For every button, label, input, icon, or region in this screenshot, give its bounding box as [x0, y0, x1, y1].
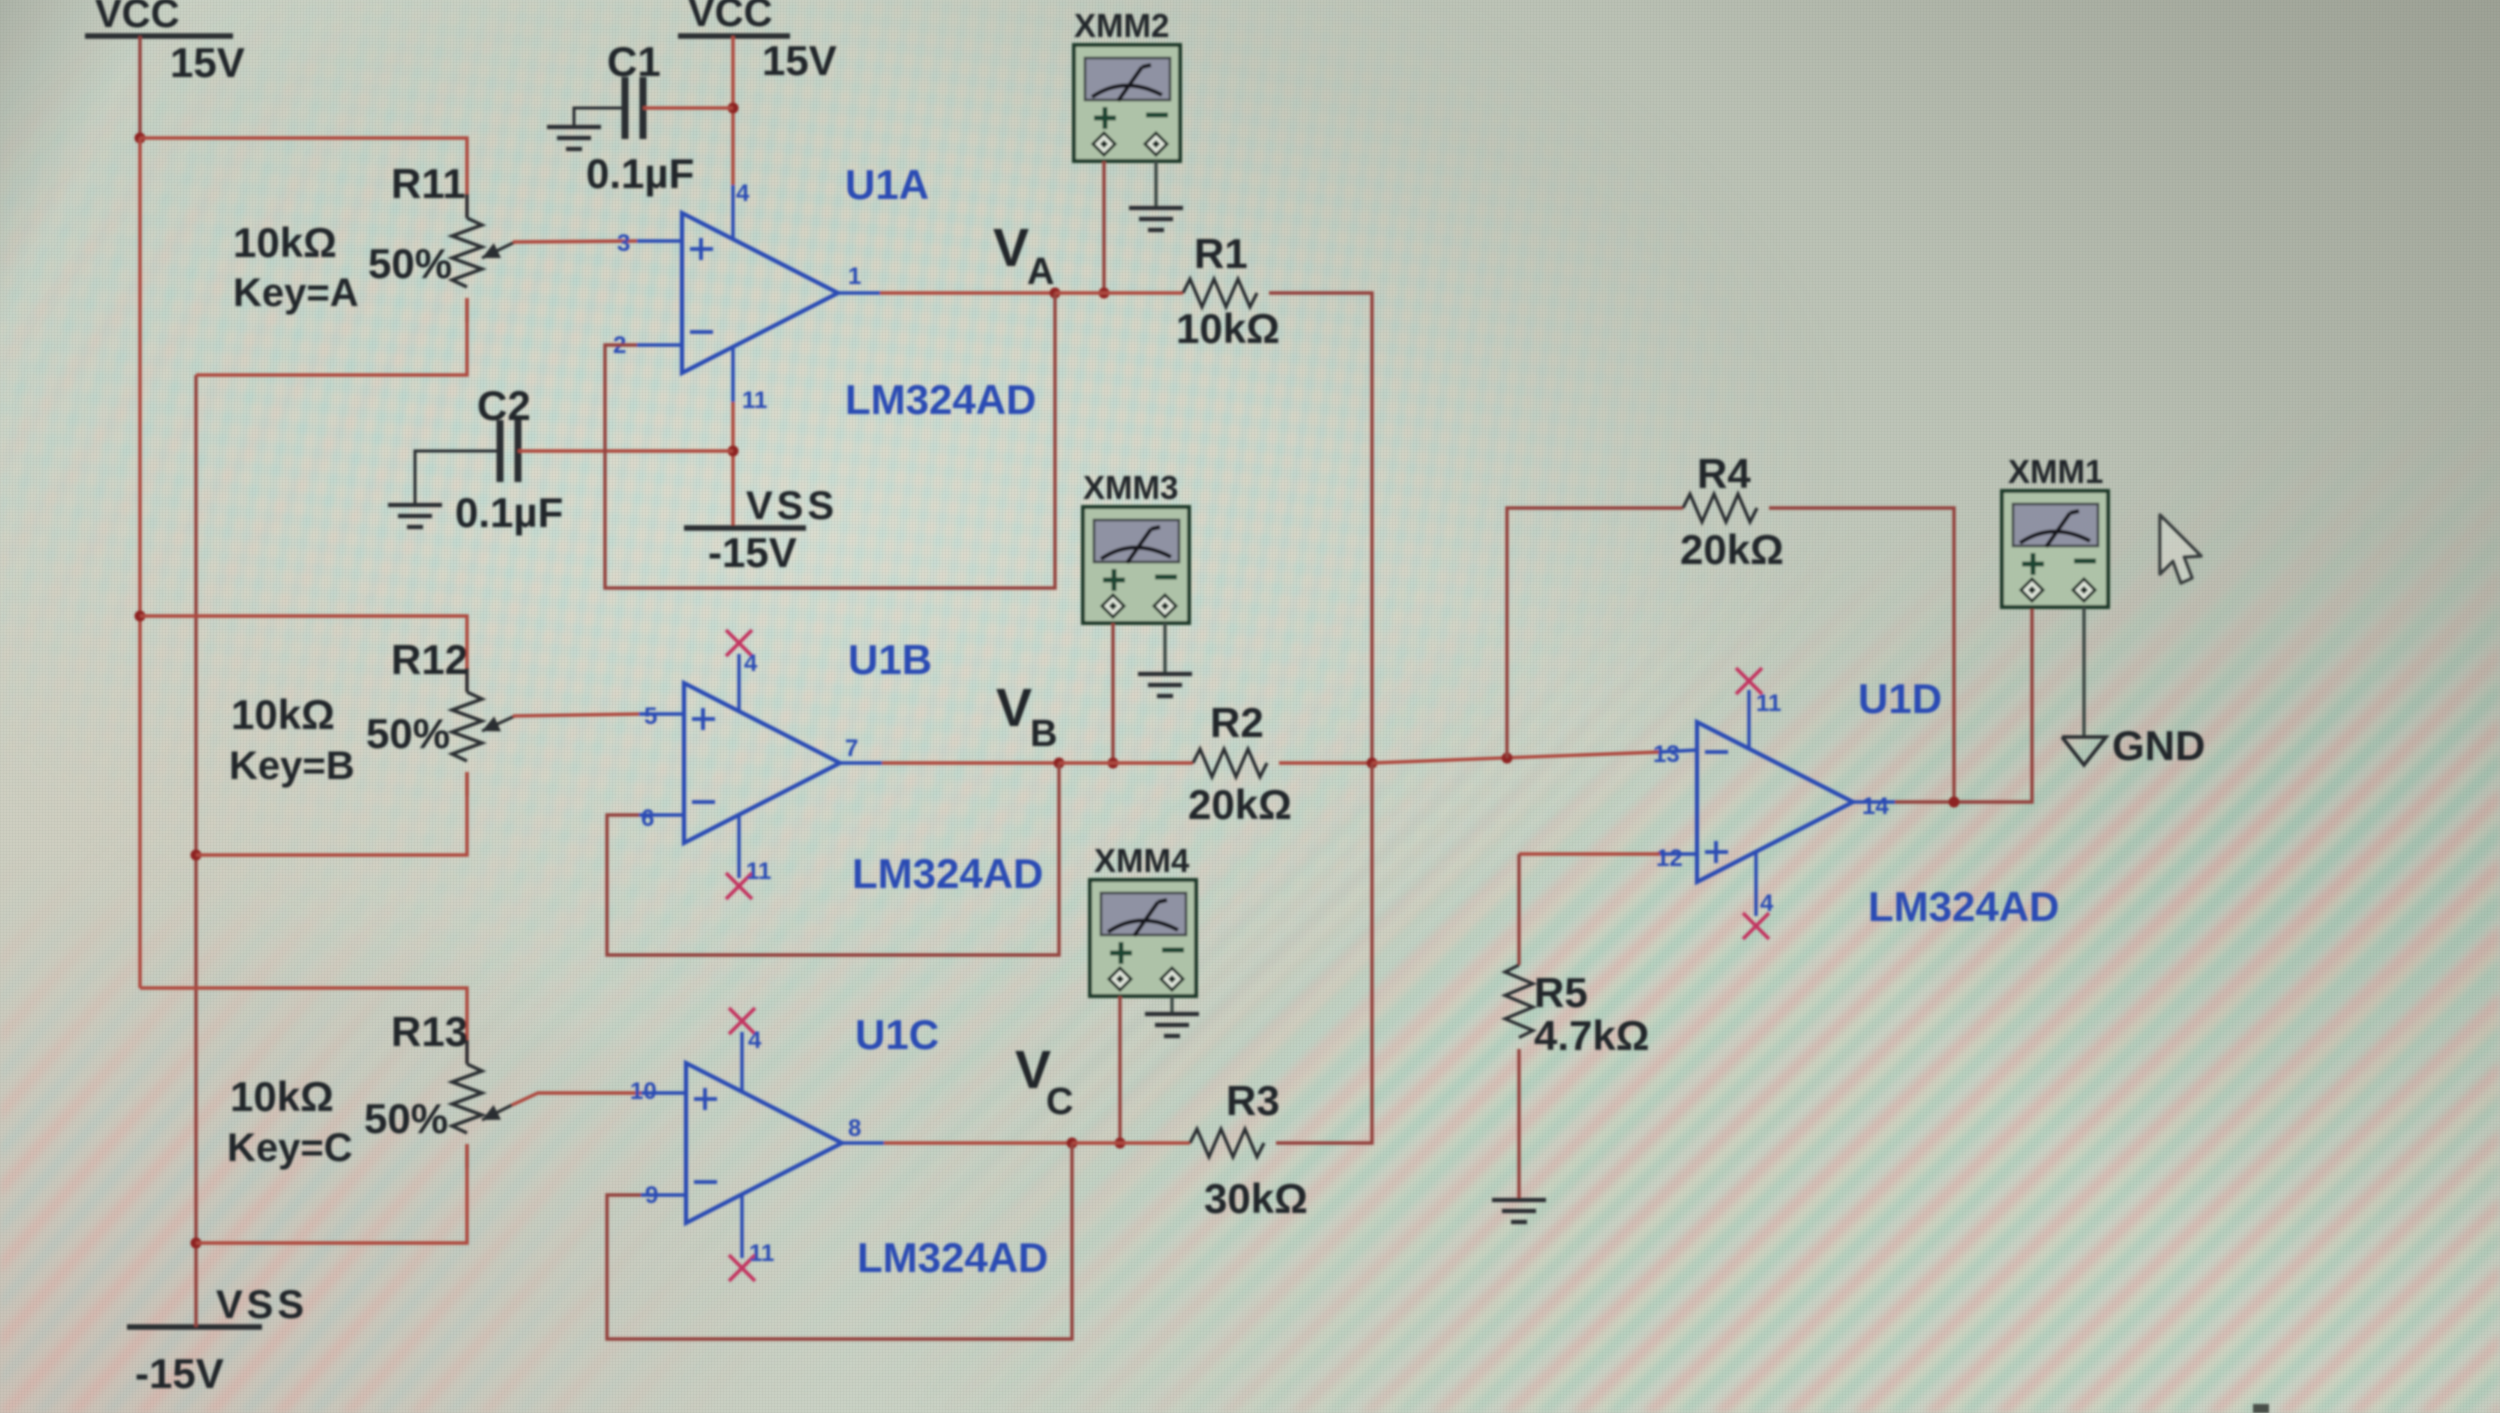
wire R5 to U1D pin12: [1519, 852, 1697, 855]
op-amp U1A: [682, 213, 838, 373]
label R11 Key=A: [233, 271, 359, 315]
wire R3 to summing bus: [1276, 763, 1372, 1143]
svg-text:11: 11: [742, 387, 767, 414]
svg-text:20kΩ: 20kΩ: [1188, 781, 1292, 828]
label XMM4: [1094, 842, 1190, 879]
label R12 Key=B: [229, 744, 355, 788]
unconnected X (U1C pin11): [729, 1255, 755, 1281]
power VCC supply (left): [85, 0, 233, 36]
wire U1C pin4 stub: [740, 1032, 743, 1092]
svg-text:7: 7: [845, 735, 858, 762]
label U1C LM324AD: [857, 1234, 1048, 1281]
power VCC supply (center): [678, 0, 790, 36]
node junction XMM3/VB: [1108, 758, 1119, 769]
node junction C2 rail / pin11: [728, 446, 739, 457]
svg-text:12: 12: [1656, 845, 1683, 872]
label R12 50%: [366, 710, 450, 757]
svg-text:Key=A: Key=A: [233, 271, 359, 315]
svg-text:LM324AD: LM324AD: [1868, 883, 2059, 930]
wire R11 top from VCC bus: [140, 138, 467, 218]
svg-text:LM324AD: LM324AD: [852, 850, 1043, 897]
label C1: [607, 38, 661, 85]
node junction VSS bus / R13 bottom: [191, 1238, 202, 1249]
label U1B: [848, 636, 932, 683]
svg-text:4: 4: [736, 180, 750, 207]
label R3 value 30k: [1204, 1175, 1308, 1222]
pin 4 label (U1C): [748, 1027, 762, 1054]
unconnected X (U1C pin4): [729, 1008, 755, 1034]
wire XMM2 - to ground: [1154, 161, 1157, 208]
wire XMM1 - to GND: [2082, 607, 2085, 737]
wire XMM4 + to VC: [1118, 996, 1121, 1143]
svg-text:50%: 50%: [364, 1095, 448, 1142]
wire U1C feedback loop: [607, 1143, 1072, 1339]
op-amp U1B: [684, 683, 840, 843]
pin 4 label (U1B): [744, 650, 758, 677]
svg-text:B: B: [1030, 713, 1057, 755]
pin 3 label (U1A +): [617, 230, 630, 257]
resistor R2: [1193, 749, 1267, 777]
svg-text:U1C: U1C: [855, 1011, 939, 1058]
wire R4 feedback right: [1769, 508, 1954, 802]
wire U1B pin4 stub: [737, 654, 740, 710]
multimeter XMM3: [1083, 507, 1189, 623]
wire XMM4 - to ground: [1170, 996, 1173, 1014]
multimeter XMM4: [1090, 880, 1196, 996]
pin 14 label (U1D out): [1862, 793, 1889, 820]
svg-text:LM324AD: LM324AD: [857, 1234, 1048, 1281]
unconnected X (U1B pin4): [726, 630, 752, 656]
svg-text:R3: R3: [1226, 1077, 1280, 1124]
svg-text:11: 11: [749, 1240, 774, 1267]
svg-text:A: A: [1027, 251, 1054, 293]
label C2 value 0.1uF: [455, 489, 563, 536]
pin 11 label (U1B): [746, 858, 771, 885]
potentiometer R11: [452, 194, 515, 322]
svg-text:-15V: -15V: [135, 1350, 224, 1397]
node VA junction (feedback): [1050, 288, 1061, 299]
svg-text:Key=B: Key=B: [229, 744, 355, 788]
multimeter XMM2: [1074, 45, 1180, 161]
svg-text:C2: C2: [477, 382, 531, 429]
capacitor C2: [415, 420, 733, 505]
wire VCC1 stub: [138, 36, 141, 138]
svg-text:C1: C1: [607, 38, 661, 85]
wire U1D output: [1853, 607, 2032, 802]
wire U1A output: [838, 291, 1055, 294]
wire R12 wiper to U1B pin5: [513, 714, 684, 716]
label R3: [1226, 1077, 1280, 1124]
svg-text:LM324AD: LM324AD: [845, 376, 1036, 423]
potentiometer R13: [452, 1040, 512, 1168]
node VC junction (feedback): [1067, 1138, 1078, 1149]
ground (XMM3): [1138, 674, 1192, 696]
wire R2 to summing bus: [1279, 761, 1372, 764]
pin 9 label (U1C -): [645, 1182, 658, 1209]
unconnected X (U1B pin11): [726, 873, 752, 899]
wire U1D pin4 stub: [1754, 852, 1757, 916]
wire summing bus to U1D pin13: [1372, 750, 1697, 763]
wire R5 top lead: [1517, 854, 1520, 965]
svg-text:10kΩ: 10kΩ: [233, 219, 337, 266]
wire R12 bottom to VSS bus: [196, 772, 467, 855]
svg-text:VCC: VCC: [95, 0, 179, 36]
ground (C1): [547, 127, 601, 149]
wire R11 bottom to VSS bus: [196, 298, 467, 375]
svg-text:XMM2: XMM2: [1074, 7, 1169, 44]
pin 10 label (U1C +): [630, 1078, 657, 1105]
wire U1A pin11 to VSS: [731, 347, 734, 528]
svg-text:6: 6: [641, 805, 654, 832]
label U1D: [1858, 675, 1942, 722]
svg-text:C: C: [1046, 1081, 1073, 1123]
svg-text:VSS: VSS: [216, 1283, 308, 1327]
label R12 value 10k: [231, 691, 335, 738]
svg-text:10kΩ: 10kΩ: [1176, 305, 1280, 352]
label U1A LM324AD: [845, 376, 1036, 423]
svg-text:R5: R5: [1534, 969, 1588, 1016]
ground (XMM4): [1145, 1014, 1199, 1036]
label C2: [477, 382, 531, 429]
label R13: [391, 1008, 468, 1055]
wire R11 wiper to U1A pin3: [513, 241, 682, 242]
svg-text:11: 11: [746, 858, 771, 885]
svg-text:Key=C: Key=C: [227, 1126, 353, 1170]
svg-text:20kΩ: 20kΩ: [1680, 526, 1784, 573]
label R5: [1534, 969, 1588, 1016]
unconnected X (U1D pin4): [1743, 913, 1769, 939]
label XMM2: [1074, 7, 1169, 44]
svg-text:XMM3: XMM3: [1083, 469, 1178, 506]
node junction R4 tap: [1502, 753, 1513, 764]
wire U1B pin11 stub: [737, 815, 740, 878]
svg-text:3: 3: [617, 230, 630, 257]
label R13 value 10k: [230, 1073, 334, 1120]
label R11: [391, 160, 466, 207]
svg-text:GND: GND: [2112, 722, 2205, 769]
node VB junction (feedback): [1054, 758, 1065, 769]
svg-text:4: 4: [1760, 890, 1774, 917]
label XMM1: [2008, 453, 2103, 490]
ground GND (triangle): [2062, 737, 2106, 765]
svg-text:V: V: [993, 218, 1029, 278]
svg-text:10: 10: [630, 1078, 657, 1105]
svg-text:V: V: [996, 678, 1032, 738]
label R2 value 20k: [1188, 781, 1292, 828]
svg-text:4.7kΩ: 4.7kΩ: [1534, 1012, 1649, 1059]
node label VC: [1015, 1040, 1073, 1123]
power VSS rail (U1A pin11): [684, 484, 838, 528]
node junction VSS bus / R12 bottom: [191, 850, 202, 861]
pin 11 label (U1A): [742, 387, 767, 414]
svg-text:R2: R2: [1210, 699, 1264, 746]
svg-text:0.1µF: 0.1µF: [455, 489, 563, 536]
label R5 value 4.7k: [1534, 1012, 1649, 1059]
wire U1B feedback loop: [607, 763, 1059, 955]
label R2: [1210, 699, 1264, 746]
label R11 value 10k&#937;: [233, 219, 337, 266]
resistor R4: [1683, 494, 1757, 522]
pin 13 label (U1D -): [1653, 741, 1680, 768]
wire R13 wiper to U1C pin10: [512, 1093, 686, 1105]
node junction R4/output: [1949, 797, 1960, 808]
wire XMM3 - to ground: [1163, 623, 1166, 674]
wire R13 bottom to VSS bus: [196, 1144, 467, 1243]
wire R1 to summing bus: [1269, 293, 1372, 763]
label GND: [2112, 722, 2205, 769]
svg-text:15V: 15V: [170, 39, 245, 86]
node junction XMM2/VA: [1099, 288, 1110, 299]
capacitor C1: [574, 77, 733, 139]
label -15V (U1A VSS): [708, 529, 797, 576]
svg-text:XMM4: XMM4: [1094, 842, 1190, 879]
svg-text:R12: R12: [391, 636, 468, 683]
wire R4 feedback left: [1507, 508, 1683, 758]
wire R5 bottom lead: [1517, 1049, 1520, 1200]
label U1D LM324AD: [1868, 883, 2059, 930]
svg-text:XMM1: XMM1: [2008, 453, 2103, 490]
svg-text:50%: 50%: [368, 240, 452, 287]
svg-text:U1B: U1B: [848, 636, 932, 683]
pin 2 label (U1A -): [613, 332, 626, 359]
node junction VCC bus / R12 top: [135, 611, 146, 622]
wire VSS bus (left rail): [194, 375, 197, 1327]
wire R12 top from VCC bus: [140, 616, 467, 692]
label C1 value 0.1uF: [586, 150, 694, 197]
node junction summing bus / R2: [1367, 758, 1378, 769]
pin 6 label (U1B -): [641, 805, 654, 832]
label R13 Key=C: [227, 1126, 353, 1170]
op-amp U1C: [686, 1063, 842, 1223]
label R11 50%: [368, 240, 452, 287]
wire VB to R2: [1059, 761, 1193, 764]
label R1: [1194, 230, 1248, 277]
svg-text:VCC: VCC: [688, 0, 772, 35]
resistor R1: [1183, 279, 1257, 307]
wire U1B output: [840, 761, 1059, 764]
label -15V (bottom VSS): [135, 1350, 224, 1397]
pin 11 label (U1C): [749, 1240, 774, 1267]
svg-text:-15V: -15V: [708, 529, 797, 576]
wire U1C pin11 stub: [740, 1194, 743, 1258]
label R4 value 20k: [1680, 526, 1784, 573]
pin 4 label (U1D): [1760, 890, 1774, 917]
svg-text:1: 1: [848, 263, 861, 290]
svg-text:15V: 15V: [762, 37, 837, 84]
label U1A: [845, 161, 929, 208]
svg-text:VSS: VSS: [746, 484, 838, 528]
node label VA: [993, 218, 1054, 293]
wire R13 top from VCC bus: [140, 988, 467, 1064]
power VSS supply (bottom-left): [127, 1283, 308, 1327]
svg-text:4: 4: [744, 650, 758, 677]
node junction VCC bus / R11 top: [135, 133, 146, 144]
svg-text:R1: R1: [1194, 230, 1248, 277]
label XMM3: [1083, 469, 1178, 506]
svg-text:8: 8: [848, 1115, 861, 1142]
node junction C1 / VCC2: [728, 103, 739, 114]
svg-text:30kΩ: 30kΩ: [1204, 1175, 1308, 1222]
wire VCC2 to U1A pin4: [731, 36, 734, 240]
svg-text:5: 5: [644, 703, 657, 730]
wire U1A feedback loop: [605, 293, 1055, 588]
node label VB: [996, 678, 1057, 755]
label R1 value 10k: [1176, 305, 1280, 352]
wire XMM3 + to VB: [1111, 623, 1114, 763]
svg-text:R4: R4: [1697, 450, 1751, 497]
potentiometer R12: [452, 668, 515, 796]
svg-text:R13: R13: [391, 1008, 468, 1055]
label 15V (center VCC): [762, 37, 837, 84]
resistor R3: [1190, 1129, 1264, 1157]
pin 12 label (U1D +): [1656, 845, 1683, 872]
wire XMM2 + to VA: [1102, 161, 1105, 293]
label R4: [1697, 450, 1751, 497]
label R13 50%: [364, 1095, 448, 1142]
ground (C2): [388, 505, 442, 527]
unconnected X (U1D pin11): [1736, 668, 1762, 694]
pin 11 label (U1D): [1756, 690, 1781, 717]
wire U1D pin11 stub: [1747, 690, 1750, 749]
svg-text:U1A: U1A: [845, 161, 929, 208]
svg-text:14: 14: [1862, 793, 1889, 820]
ground (R5): [1492, 1200, 1546, 1222]
svg-text:U1D: U1D: [1858, 675, 1942, 722]
pin 7 label (U1B out): [845, 735, 858, 762]
pin 8 label (U1C out): [848, 1115, 861, 1142]
svg-text:0.1µF: 0.1µF: [586, 150, 694, 197]
svg-text:11: 11: [1756, 690, 1781, 717]
wire VCC bus (left rail): [138, 138, 141, 988]
op-amp U1D: [1697, 722, 1853, 882]
svg-text:50%: 50%: [366, 710, 450, 757]
svg-text:R11: R11: [391, 160, 466, 207]
multimeter XMM1: [2002, 491, 2108, 607]
screen edge artifact: [2253, 1404, 2269, 1413]
wire VA to R1: [1055, 291, 1183, 294]
label U1B LM324AD: [852, 850, 1043, 897]
resistor R5: [1505, 965, 1533, 1038]
svg-text:4: 4: [748, 1027, 762, 1054]
label 15V (left VCC): [170, 39, 245, 86]
mouse cursor: [2160, 515, 2201, 583]
ground (XMM2): [1129, 208, 1183, 230]
label R12: [391, 636, 468, 683]
svg-text:13: 13: [1653, 741, 1680, 768]
wire U1C output: [842, 1141, 1072, 1144]
pin 1 label (U1A out): [848, 263, 861, 290]
node junction XMM4/VC: [1115, 1138, 1126, 1149]
svg-text:10kΩ: 10kΩ: [230, 1073, 334, 1120]
label U1C: [855, 1011, 939, 1058]
svg-text:10kΩ: 10kΩ: [231, 691, 335, 738]
pin 5 label (U1B +): [644, 703, 657, 730]
wire VC to R3: [1072, 1141, 1190, 1144]
pin 4 label (U1A): [736, 180, 750, 207]
